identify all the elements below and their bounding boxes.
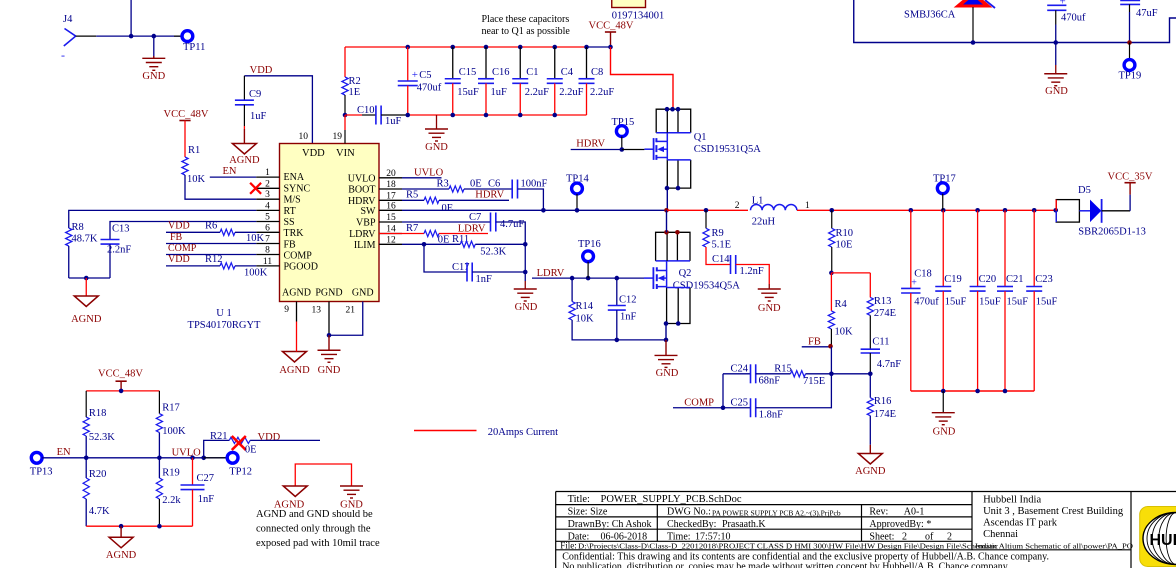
svg-text:Q2: Q2 bbox=[679, 268, 692, 279]
svg-text:470uf: 470uf bbox=[914, 297, 939, 308]
svg-text:1: 1 bbox=[265, 168, 270, 178]
pin 12 bbox=[379, 243, 402, 245]
capacitor C27 1nF bbox=[192, 458, 194, 485]
svg-text:C21: C21 bbox=[1006, 274, 1024, 285]
node bbox=[608, 45, 613, 50]
resistor R4 10K bbox=[830, 273, 832, 311]
logo Hubbell bbox=[1140, 507, 1176, 567]
capacitor C23 15uF bbox=[1032, 208, 1037, 213]
node bbox=[157, 524, 162, 529]
transistor Q1 CSD19531Q5A symbol bbox=[653, 138, 655, 160]
wire Q1 source to SW bbox=[666, 158, 668, 160]
svg-text:AGND: AGND bbox=[106, 550, 137, 561]
svg-text:10K: 10K bbox=[576, 314, 595, 325]
wire D5 to VCC_35V bbox=[1102, 210, 1131, 212]
svg-text:AGND: AGND bbox=[855, 466, 886, 477]
test point TP19 bbox=[1129, 43, 1131, 60]
component 0197134001 box bbox=[612, 0, 646, 8]
svg-text:C9: C9 bbox=[249, 89, 261, 100]
svg-text:C1: C1 bbox=[526, 67, 538, 78]
node bbox=[615, 276, 620, 281]
svg-text:20: 20 bbox=[386, 169, 396, 179]
svg-text:FB: FB bbox=[170, 232, 183, 243]
pin 9 AGND bbox=[296, 302, 298, 322]
svg-text:VDD: VDD bbox=[168, 221, 190, 232]
wire AGND rail R8 C13 bbox=[69, 277, 110, 279]
svg-text:7: 7 bbox=[265, 235, 270, 245]
svg-text:R20: R20 bbox=[89, 469, 107, 480]
svg-text:R8: R8 bbox=[72, 222, 84, 233]
svg-text:0E: 0E bbox=[245, 445, 257, 456]
svg-text:C15: C15 bbox=[459, 67, 477, 78]
svg-text:D5: D5 bbox=[1078, 185, 1091, 196]
svg-text:GND: GND bbox=[142, 71, 165, 82]
svg-text:TRK: TRK bbox=[284, 228, 305, 239]
svg-text:R9: R9 bbox=[712, 228, 724, 239]
wire C24 down to COMP bbox=[722, 374, 724, 408]
svg-text:of: of bbox=[925, 531, 934, 542]
svg-text:near to Q1 as possible: near to Q1 as possible bbox=[482, 26, 571, 37]
svg-text:R5: R5 bbox=[406, 190, 418, 201]
wire L1 to output bus (red) bbox=[797, 209, 1056, 211]
svg-text:1uF: 1uF bbox=[250, 111, 267, 122]
svg-text:15uF: 15uF bbox=[1007, 297, 1029, 308]
svg-text:HDRV: HDRV bbox=[576, 139, 605, 150]
svg-text:GND: GND bbox=[515, 302, 538, 313]
svg-text:2.2nF: 2.2nF bbox=[107, 245, 131, 256]
node bbox=[327, 333, 332, 338]
svg-text:+: + bbox=[1060, 0, 1066, 8]
resistor R17 100K bbox=[158, 391, 160, 414]
pin 18 bbox=[379, 188, 402, 190]
wire VDD to U1 pin 10 bbox=[244, 76, 312, 144]
svg-text:2: 2 bbox=[947, 531, 952, 542]
svg-text:C12: C12 bbox=[619, 295, 637, 306]
svg-text:6: 6 bbox=[265, 223, 270, 233]
wire output gnd bus (red) bbox=[911, 390, 1034, 392]
svg-text:GND: GND bbox=[656, 368, 679, 379]
svg-text:GND: GND bbox=[758, 303, 781, 314]
svg-text:C11: C11 bbox=[872, 337, 889, 348]
svg-text:UVLO: UVLO bbox=[348, 174, 376, 185]
test point TP13 bbox=[31, 452, 42, 463]
svg-text:100nF: 100nF bbox=[521, 179, 548, 190]
node bbox=[1003, 389, 1008, 394]
svg-text:PGND: PGND bbox=[315, 288, 342, 299]
svg-text:68nF: 68nF bbox=[759, 376, 781, 387]
wire R10 to R4/R13 (red) bbox=[829, 271, 834, 276]
node bbox=[119, 524, 124, 529]
wire top bus red bbox=[345, 46, 587, 48]
capacitor C16 1uF bbox=[484, 45, 489, 50]
svg-text:2.2uF: 2.2uF bbox=[559, 87, 583, 98]
pin 21 GND bbox=[329, 302, 363, 336]
svg-text:TP16: TP16 bbox=[578, 239, 601, 250]
svg-text:GND: GND bbox=[318, 365, 341, 376]
svg-text:DrawnBy: Ch Ashok: DrawnBy: Ch Ashok bbox=[568, 519, 652, 530]
node bbox=[868, 372, 873, 377]
capacitor C12 1nF bbox=[616, 278, 618, 305]
svg-text:4.7K: 4.7K bbox=[89, 506, 110, 517]
svg-text:3: 3 bbox=[265, 190, 270, 200]
pin19 lead bbox=[344, 115, 346, 130]
svg-text:R16: R16 bbox=[874, 396, 892, 407]
svg-text:SBR2065D1-13: SBR2065D1-13 bbox=[1078, 227, 1146, 238]
svg-text:TP19: TP19 bbox=[1119, 71, 1142, 82]
capacitor input 47uF bbox=[1120, 0, 1140, 2]
pin 2 bbox=[256, 187, 279, 189]
svg-text:C24: C24 bbox=[731, 364, 749, 375]
resistor R2 1E bbox=[344, 47, 346, 77]
wire vertical C7-C17-GND bbox=[524, 244, 526, 272]
svg-text:COMP: COMP bbox=[284, 250, 313, 261]
resistor R14 10K bbox=[571, 278, 573, 301]
ground AGND under R8 bbox=[85, 278, 87, 296]
capacitor C4 2.2uF bbox=[552, 45, 557, 50]
wire pin5 SS to C13 bbox=[110, 222, 256, 240]
test point TP12 bbox=[204, 457, 228, 459]
svg-text:No publication, distribution o: No publication, distribution or, copies … bbox=[562, 562, 1009, 568]
ground GND input bbox=[1055, 43, 1057, 66]
svg-text:C19: C19 bbox=[944, 274, 962, 285]
svg-text:R10: R10 bbox=[836, 228, 854, 239]
svg-text:4.7nF: 4.7nF bbox=[877, 359, 901, 370]
svg-text:EN: EN bbox=[223, 166, 237, 177]
svg-text:C14: C14 bbox=[712, 254, 730, 265]
svg-text:R12: R12 bbox=[205, 254, 223, 265]
svg-text:100K: 100K bbox=[244, 268, 268, 279]
node bbox=[1053, 40, 1058, 45]
node FB bbox=[828, 344, 833, 349]
svg-text:ENA: ENA bbox=[284, 172, 305, 183]
wire Q2 drain bbox=[666, 261, 668, 271]
svg-text:21: 21 bbox=[346, 306, 356, 316]
node bbox=[541, 208, 546, 213]
svg-text:17: 17 bbox=[386, 191, 396, 201]
ground AGND under R16 bbox=[869, 445, 871, 454]
svg-text:10K: 10K bbox=[835, 327, 854, 338]
svg-text:GND: GND bbox=[352, 288, 374, 299]
svg-text:COMP: COMP bbox=[684, 398, 714, 409]
node bbox=[1127, 40, 1132, 45]
svg-text:VIN: VIN bbox=[336, 148, 355, 159]
svg-text:VCC_35V: VCC_35V bbox=[1108, 172, 1153, 183]
wire VCC to Q1 drain (red) bbox=[611, 47, 674, 109]
svg-text:RT: RT bbox=[284, 206, 296, 217]
ground GND under cap bus bbox=[436, 115, 438, 129]
svg-text:TP12: TP12 bbox=[229, 467, 252, 478]
wire C25 to FB node bbox=[756, 374, 832, 408]
capacitor C18 470uf bbox=[909, 208, 914, 213]
svg-text:LDRV: LDRV bbox=[537, 268, 565, 279]
diode D5 SBR2065D1-13 bbox=[1053, 208, 1058, 213]
svg-text:CSD19531Q5A: CSD19531Q5A bbox=[694, 144, 762, 155]
svg-text:VCC_48V: VCC_48V bbox=[164, 109, 209, 120]
node bbox=[586, 276, 591, 281]
title block border bbox=[556, 492, 1176, 568]
node R9 tap bbox=[704, 208, 709, 213]
svg-text:2.2k: 2.2k bbox=[162, 495, 181, 506]
ground GND note bbox=[340, 485, 363, 487]
svg-text:12: 12 bbox=[386, 235, 396, 245]
resistor R18 52.3K bbox=[85, 391, 87, 417]
svg-text:Unit 3 , Basement Crest Buildi: Unit 3 , Basement Crest Building bbox=[983, 506, 1124, 517]
svg-text:15uF: 15uF bbox=[945, 297, 967, 308]
wire Q2 source down bbox=[666, 286, 668, 289]
svg-text:AGND: AGND bbox=[71, 314, 102, 325]
svg-text:22uH: 22uH bbox=[752, 217, 776, 228]
svg-text:11: 11 bbox=[263, 257, 272, 267]
svg-text:FB: FB bbox=[808, 337, 821, 348]
svg-text:1: 1 bbox=[805, 201, 810, 211]
svg-text:C8: C8 bbox=[591, 67, 603, 78]
svg-text:AGND and GND should be: AGND and GND should be bbox=[256, 509, 373, 520]
node bbox=[664, 338, 669, 343]
svg-text:1uF: 1uF bbox=[385, 116, 402, 127]
svg-text:1.2nF: 1.2nF bbox=[740, 266, 764, 277]
svg-text:C5: C5 bbox=[419, 70, 431, 81]
X no-connect R21 bbox=[232, 436, 246, 450]
pin 17 bbox=[379, 199, 402, 201]
svg-text:FB: FB bbox=[284, 239, 297, 250]
svg-text:SW: SW bbox=[361, 206, 377, 217]
svg-text:52.3K: 52.3K bbox=[480, 247, 506, 258]
svg-text:GND: GND bbox=[1045, 86, 1068, 97]
capacitor C15 15uF bbox=[450, 45, 455, 50]
svg-text:2.2uF: 2.2uF bbox=[525, 87, 549, 98]
wire bottom bus red bbox=[408, 114, 587, 116]
svg-text:UVLO: UVLO bbox=[414, 168, 444, 179]
svg-text:ILIM: ILIM bbox=[354, 240, 376, 251]
node bbox=[941, 389, 946, 394]
wire SW net bbox=[402, 209, 667, 211]
svg-text:M/S: M/S bbox=[284, 195, 301, 206]
svg-text:SYNC: SYNC bbox=[284, 183, 311, 194]
svg-text:2: 2 bbox=[265, 179, 270, 189]
svg-text:VDD: VDD bbox=[168, 254, 190, 265]
wire Q1 drain bbox=[666, 133, 668, 142]
svg-text:1nF: 1nF bbox=[620, 312, 637, 323]
wire Q2 source rail bbox=[617, 339, 666, 341]
svg-text:File:: File: bbox=[560, 540, 577, 550]
resistor R19 2.2k bbox=[158, 458, 160, 478]
pin 13 PGND bbox=[328, 302, 330, 336]
wire EN to pin1 bbox=[210, 176, 256, 178]
pin 20 bbox=[379, 177, 402, 179]
X no-connect on pin 2 bbox=[250, 183, 261, 194]
svg-text:19: 19 bbox=[333, 132, 343, 142]
node bbox=[190, 456, 195, 461]
transistor Q2 CSD19534Q5A symbol bbox=[652, 267, 654, 289]
svg-text:R17: R17 bbox=[162, 403, 180, 414]
svg-text:Sheet:: Sheet: bbox=[869, 531, 894, 542]
svg-text:CheckedBy:: CheckedBy: bbox=[667, 519, 716, 530]
pin 1 bbox=[256, 176, 279, 178]
svg-text:VDD: VDD bbox=[250, 65, 273, 76]
svg-text:VBP: VBP bbox=[356, 218, 376, 229]
svg-text:COMP: COMP bbox=[168, 243, 197, 254]
svg-text:48.7K: 48.7K bbox=[72, 234, 98, 245]
svg-text:0E: 0E bbox=[442, 203, 454, 214]
svg-text:GND: GND bbox=[933, 427, 956, 438]
svg-text:A0-1: A0-1 bbox=[904, 507, 925, 518]
capacitor C9 bbox=[243, 76, 245, 100]
ground GND output bbox=[942, 391, 944, 413]
svg-text:+: + bbox=[412, 69, 418, 81]
svg-text:10: 10 bbox=[299, 132, 309, 142]
svg-text:174E: 174E bbox=[874, 409, 896, 420]
svg-text:10K: 10K bbox=[246, 233, 265, 244]
svg-text:R13: R13 bbox=[874, 296, 892, 307]
svg-text:C20: C20 bbox=[979, 274, 997, 285]
svg-text:VDD: VDD bbox=[258, 432, 281, 443]
node junction bbox=[129, 34, 134, 39]
svg-text:AGND: AGND bbox=[282, 288, 311, 299]
svg-text:D:\Projects\Class-D\Class-D_22: D:\Projects\Class-D\Class-D_22012018\PRO… bbox=[578, 542, 998, 550]
svg-text:C27: C27 bbox=[197, 473, 215, 484]
resistor R11 52.3K wire ILIM bbox=[402, 243, 460, 245]
svg-text:EN: EN bbox=[57, 447, 71, 458]
svg-text:VDD: VDD bbox=[302, 148, 325, 159]
wire C6 to SW bbox=[518, 189, 544, 210]
wire EN node to R20 bbox=[85, 458, 87, 478]
transistor Q2 package pads bottom bbox=[667, 288, 690, 324]
svg-text:UVLO: UVLO bbox=[172, 448, 202, 459]
svg-text:R3: R3 bbox=[437, 179, 449, 190]
legend 20Amps current bbox=[414, 430, 477, 432]
svg-text:100K: 100K bbox=[162, 426, 186, 437]
svg-text:-: - bbox=[61, 48, 65, 62]
svg-text:GND: GND bbox=[425, 142, 448, 153]
capacitor C5 470uf bbox=[405, 45, 410, 50]
capacitor C17 1nF bbox=[424, 244, 467, 272]
svg-text:52.3K: 52.3K bbox=[89, 432, 115, 443]
svg-text:PA POWER SUPPLY PCB A2.~(: PA POWER SUPPLY PCB A2.~(3).PrjPcb bbox=[712, 509, 841, 518]
wire top bus navy bbox=[587, 46, 611, 48]
resistor R10 10E bbox=[831, 210, 833, 228]
svg-text:LDRV: LDRV bbox=[458, 224, 486, 235]
capacitor C1 2.2uF bbox=[518, 45, 523, 50]
wire R1 to pin3 bbox=[185, 175, 256, 199]
capacitor C8 2.2uF bbox=[584, 45, 589, 50]
svg-text:+: + bbox=[911, 278, 917, 289]
svg-text:TP11: TP11 bbox=[183, 42, 205, 53]
svg-text:06-06-2018: 06-06-2018 bbox=[601, 531, 648, 542]
svg-text:C25: C25 bbox=[731, 398, 749, 409]
ground AGND note bbox=[283, 486, 307, 497]
svg-text:Title:: Title: bbox=[568, 494, 590, 505]
svg-text:15uF: 15uF bbox=[1036, 297, 1058, 308]
svg-text:Prasaath.K: Prasaath.K bbox=[722, 519, 766, 530]
ground AGND divider bbox=[120, 526, 122, 537]
svg-text:2: 2 bbox=[902, 531, 907, 542]
resistor R9 5.1E bbox=[705, 210, 707, 228]
op-amp U1 TPS40170RGYT body bbox=[280, 144, 380, 302]
svg-text:R19: R19 bbox=[162, 468, 180, 479]
svg-text:R4: R4 bbox=[835, 299, 848, 310]
node bbox=[201, 456, 206, 461]
svg-text:Chennai: Chennai bbox=[983, 529, 1018, 540]
svg-text:1nF: 1nF bbox=[198, 494, 215, 505]
node bbox=[119, 389, 124, 394]
ground GND pin13 bbox=[328, 335, 330, 350]
svg-text:ApprovedBy: *: ApprovedBy: * bbox=[869, 519, 931, 530]
pin 11 bbox=[256, 265, 279, 267]
ground AGND pin9 bbox=[295, 342, 297, 352]
svg-text:U 1: U 1 bbox=[216, 308, 231, 319]
node SW at Q1 source bbox=[664, 208, 669, 213]
svg-text:HDRV: HDRV bbox=[475, 190, 504, 201]
svg-text:470uf: 470uf bbox=[1061, 13, 1086, 24]
svg-text:2.2uF: 2.2uF bbox=[590, 87, 614, 98]
svg-text:R6: R6 bbox=[205, 221, 217, 232]
svg-text:715E: 715E bbox=[803, 376, 825, 387]
svg-text:15uF: 15uF bbox=[979, 297, 1001, 308]
node bbox=[829, 372, 834, 377]
node bbox=[570, 276, 575, 281]
svg-text:VCC_48V: VCC_48V bbox=[98, 369, 143, 380]
svg-text:AGND: AGND bbox=[279, 365, 310, 376]
svg-text:PGOOD: PGOOD bbox=[284, 262, 318, 273]
svg-text:Q1: Q1 bbox=[694, 132, 707, 143]
wire J4 to TP11 bbox=[76, 35, 97, 37]
wire divider top rail (red) bbox=[86, 390, 159, 392]
svg-text:Ascendas IT park: Ascendas IT park bbox=[983, 518, 1058, 529]
svg-text:18: 18 bbox=[386, 180, 396, 190]
node bbox=[84, 456, 89, 461]
pin 6 bbox=[256, 231, 279, 233]
svg-text:15uF: 15uF bbox=[457, 87, 479, 98]
svg-text:connected only through the: connected only through the bbox=[256, 524, 371, 535]
node bbox=[615, 338, 620, 343]
capacitor C14 1.2nF bbox=[706, 247, 731, 265]
svg-text:8: 8 bbox=[265, 246, 270, 256]
svg-text:9: 9 bbox=[284, 305, 289, 315]
svg-text:C4: C4 bbox=[561, 67, 574, 78]
transistor Q1 package pads top bbox=[656, 109, 691, 133]
svg-text:exposed pad with 10mil trace: exposed pad with 10mil trace bbox=[256, 538, 380, 549]
svg-text:5: 5 bbox=[265, 213, 270, 223]
svg-text:20Amps Current: 20Amps Current bbox=[488, 427, 558, 438]
svg-text:R18: R18 bbox=[89, 408, 107, 419]
wire LDRV to Q2 gate bbox=[532, 277, 644, 279]
svg-text:R7: R7 bbox=[406, 223, 418, 234]
wire pin4 RT to R8 bbox=[69, 210, 256, 228]
pin 16 bbox=[379, 209, 402, 211]
ground GND under C14 bbox=[768, 284, 770, 289]
pin 3 bbox=[256, 198, 279, 200]
wire SW down to Q2 bbox=[666, 210, 668, 232]
svg-text:1uF: 1uF bbox=[491, 87, 508, 98]
svg-text:Indian Altium Schematic of all: Indian Altium Schematic of all\power\PA_… bbox=[975, 542, 1133, 550]
capacitor C21 15uF bbox=[1003, 208, 1008, 213]
svg-text:SMBJ36CA: SMBJ36CA bbox=[904, 10, 956, 21]
svg-text:POWER_SUPPLY_PCB.SchDoc: POWER_SUPPLY_PCB.SchDoc bbox=[601, 494, 742, 505]
ground GND at J4 bbox=[153, 36, 155, 58]
svg-text:1E: 1E bbox=[349, 87, 361, 98]
node bbox=[975, 389, 980, 394]
ground GND under C17 bbox=[524, 281, 526, 289]
wire from top edge bbox=[130, 0, 132, 36]
node bbox=[84, 276, 89, 281]
svg-text:DWG No.:: DWG No.: bbox=[667, 507, 711, 518]
ground AGND under C9 bbox=[243, 129, 245, 144]
svg-text:TPS40170RGYT: TPS40170RGYT bbox=[188, 320, 262, 331]
node junction bbox=[152, 34, 157, 39]
pin 7 bbox=[256, 243, 279, 245]
svg-text:J4: J4 bbox=[63, 14, 73, 25]
pin 8 bbox=[256, 254, 279, 256]
